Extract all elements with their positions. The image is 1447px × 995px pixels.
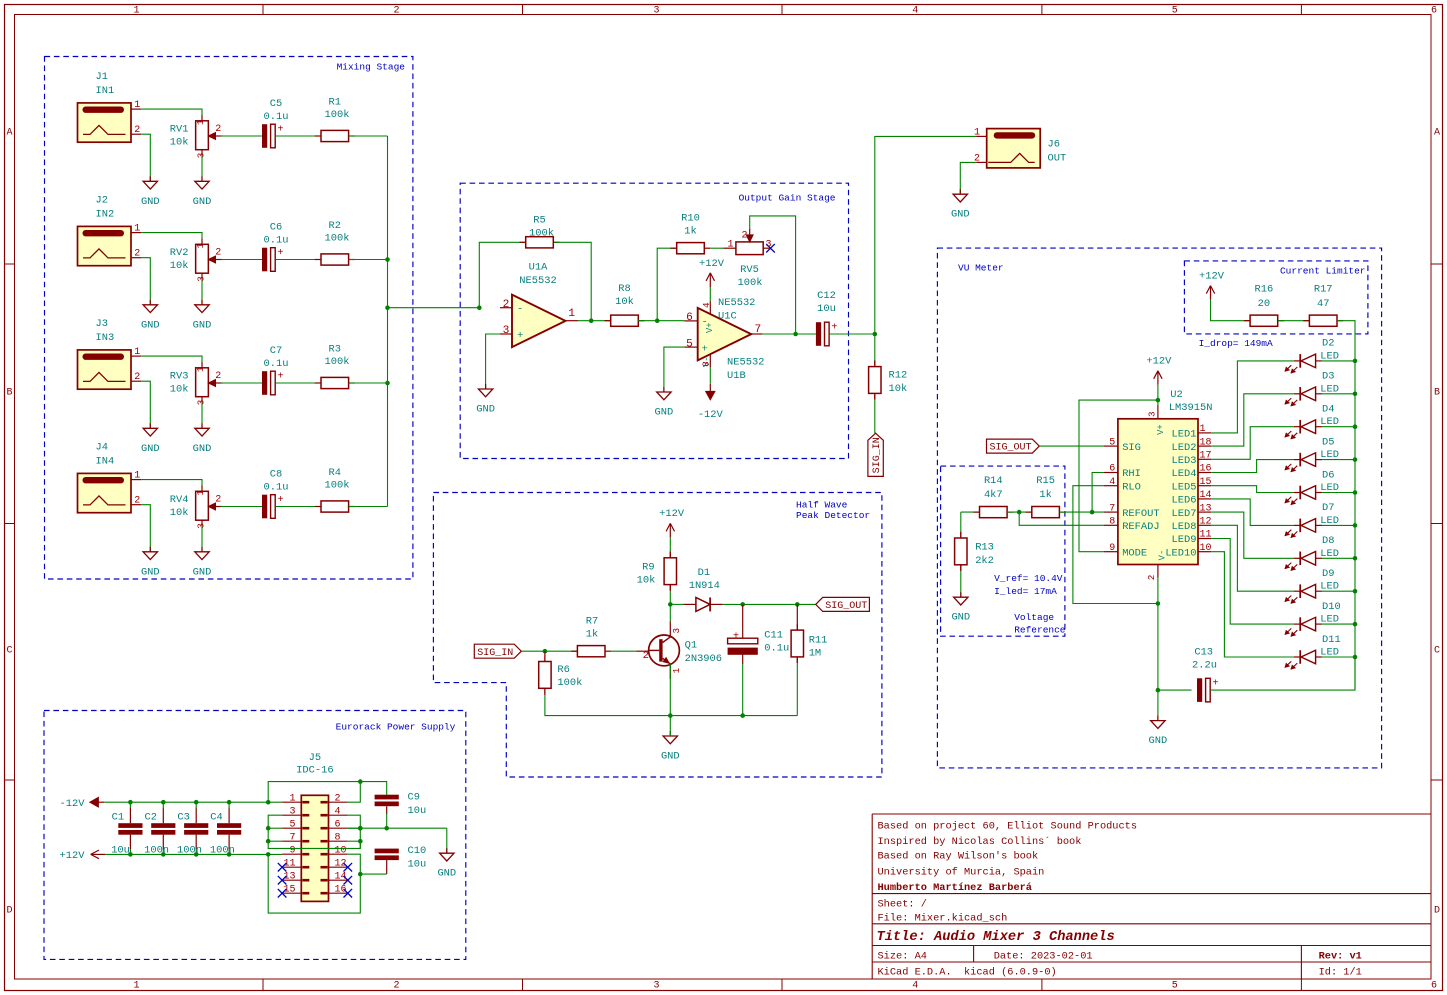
svg-text:NE5532: NE5532 xyxy=(519,275,556,287)
svg-text:C11: C11 xyxy=(764,630,783,642)
svg-text:2: 2 xyxy=(643,650,649,662)
svg-text:6: 6 xyxy=(686,312,693,324)
svg-text:LED8: LED8 xyxy=(1172,521,1197,533)
svg-text:4: 4 xyxy=(1109,477,1115,488)
svg-text:RV3: RV3 xyxy=(170,370,189,382)
svg-text:1: 1 xyxy=(195,119,206,125)
svg-text:7: 7 xyxy=(289,832,295,843)
svg-text:C6: C6 xyxy=(270,222,282,234)
svg-text:REFADJ: REFADJ xyxy=(1122,521,1159,533)
svg-text:B: B xyxy=(6,388,12,399)
svg-text:3: 3 xyxy=(195,153,206,159)
svg-text:R10: R10 xyxy=(681,213,700,225)
svg-text:Half Wave: Half Wave xyxy=(796,500,848,511)
svg-text:D1: D1 xyxy=(698,567,710,579)
svg-text:4: 4 xyxy=(701,302,712,308)
svg-text:13: 13 xyxy=(1200,503,1212,514)
svg-text:+: + xyxy=(278,371,284,382)
svg-text:3: 3 xyxy=(1147,411,1158,417)
svg-text:2: 2 xyxy=(503,299,510,311)
svg-text:LED: LED xyxy=(1320,548,1339,560)
svg-text:LED: LED xyxy=(1320,383,1339,395)
svg-text:LED: LED xyxy=(1320,581,1339,593)
svg-text:GND: GND xyxy=(193,319,212,331)
svg-text:University of Murcia, Spain: University of Murcia, Spain xyxy=(878,867,1045,879)
svg-text:100k: 100k xyxy=(738,277,763,289)
svg-text:D5: D5 xyxy=(1322,436,1334,448)
svg-text:2k2: 2k2 xyxy=(975,555,994,567)
svg-text:J5: J5 xyxy=(309,752,321,764)
svg-text:3: 3 xyxy=(653,6,659,17)
svg-text:+12V: +12V xyxy=(60,850,86,862)
svg-text:+: + xyxy=(278,124,284,135)
svg-text:15: 15 xyxy=(1200,477,1212,488)
svg-text:6: 6 xyxy=(1109,464,1115,475)
svg-text:GND: GND xyxy=(1149,735,1168,747)
svg-text:100n: 100n xyxy=(177,844,202,856)
svg-text:R15: R15 xyxy=(1036,475,1055,487)
svg-text:Date: 2023-02-01: Date: 2023-02-01 xyxy=(994,950,1093,962)
svg-text:LED3: LED3 xyxy=(1172,455,1197,467)
svg-text:3: 3 xyxy=(766,239,772,250)
svg-text:1: 1 xyxy=(727,239,733,250)
svg-text:1k: 1k xyxy=(684,226,696,238)
svg-text:20: 20 xyxy=(1258,298,1270,310)
svg-text:6: 6 xyxy=(335,819,341,830)
svg-text:1: 1 xyxy=(133,981,139,992)
svg-text:Peak Detector: Peak Detector xyxy=(796,510,870,521)
svg-text:C: C xyxy=(1434,646,1440,657)
svg-text:Size: A4: Size: A4 xyxy=(878,950,927,962)
svg-text:IDC-16: IDC-16 xyxy=(296,764,333,776)
svg-text:C5: C5 xyxy=(270,98,282,110)
svg-text:Id: 1/1: Id: 1/1 xyxy=(1319,967,1362,979)
svg-text:R14: R14 xyxy=(984,475,1003,487)
svg-text:17: 17 xyxy=(1200,451,1212,462)
svg-text:RHI: RHI xyxy=(1122,468,1141,480)
svg-text:+: + xyxy=(1213,678,1219,689)
svg-text:RV1: RV1 xyxy=(170,123,189,135)
svg-text:GND: GND xyxy=(141,319,160,331)
svg-text:Sheet: /: Sheet: / xyxy=(878,898,927,910)
svg-text:SIG_IN: SIG_IN xyxy=(477,648,513,659)
svg-text:7: 7 xyxy=(1109,503,1115,514)
svg-text:GND: GND xyxy=(661,751,680,763)
svg-text:14: 14 xyxy=(1200,490,1212,501)
svg-text:SIG_OUT: SIG_OUT xyxy=(825,601,867,612)
svg-text:RV5: RV5 xyxy=(740,264,759,276)
svg-text:R3: R3 xyxy=(329,344,341,356)
svg-text:D: D xyxy=(6,906,12,917)
svg-text:R16: R16 xyxy=(1255,284,1274,296)
svg-text:1: 1 xyxy=(1200,424,1206,435)
svg-text:GND: GND xyxy=(951,209,970,221)
svg-text:4: 4 xyxy=(912,981,918,992)
svg-text:C3: C3 xyxy=(177,811,189,823)
svg-text:3: 3 xyxy=(195,400,206,406)
svg-text:D6: D6 xyxy=(1322,469,1334,481)
svg-text:1: 1 xyxy=(134,347,140,358)
svg-text:LED: LED xyxy=(1320,449,1339,461)
svg-text:2: 2 xyxy=(215,495,221,506)
svg-text:2: 2 xyxy=(1146,575,1157,581)
svg-text:+12V: +12V xyxy=(659,508,685,520)
svg-text:0.1u: 0.1u xyxy=(264,234,289,246)
svg-text:RV2: RV2 xyxy=(170,247,189,259)
svg-text:GND: GND xyxy=(655,407,674,419)
svg-text:R4: R4 xyxy=(329,467,341,479)
svg-text:7: 7 xyxy=(755,324,762,336)
svg-text:16: 16 xyxy=(1200,464,1212,475)
svg-text:10k: 10k xyxy=(170,384,189,396)
svg-text:2N3906: 2N3906 xyxy=(685,653,722,665)
svg-text:1: 1 xyxy=(134,100,140,111)
svg-text:J2: J2 xyxy=(96,195,108,207)
svg-text:GND: GND xyxy=(141,566,160,578)
svg-text:10u: 10u xyxy=(408,858,427,870)
svg-text:18: 18 xyxy=(1200,437,1212,448)
svg-text:R2: R2 xyxy=(329,220,341,232)
svg-text:D4: D4 xyxy=(1322,404,1334,416)
svg-text:LED9: LED9 xyxy=(1172,534,1197,546)
svg-text:R17: R17 xyxy=(1314,284,1333,296)
svg-text:D2: D2 xyxy=(1322,338,1334,350)
svg-text:8: 8 xyxy=(701,361,712,367)
svg-text:V+: V+ xyxy=(1156,424,1166,435)
svg-text:Reference: Reference xyxy=(1014,625,1066,636)
svg-text:0.1u: 0.1u xyxy=(264,111,289,123)
svg-text:RV4: RV4 xyxy=(170,494,189,506)
svg-text:C2: C2 xyxy=(145,811,157,823)
svg-text:2: 2 xyxy=(393,6,399,17)
svg-text:+: + xyxy=(702,343,708,355)
svg-text:V_ref= 10.4V: V_ref= 10.4V xyxy=(994,573,1063,584)
svg-text:B: B xyxy=(1434,388,1440,399)
svg-text:5: 5 xyxy=(1172,6,1178,17)
svg-text:LED: LED xyxy=(1320,647,1339,659)
svg-text:10k: 10k xyxy=(615,296,634,308)
svg-text:D3: D3 xyxy=(1322,371,1334,383)
svg-text:D9: D9 xyxy=(1322,568,1334,580)
svg-text:-12V: -12V xyxy=(698,409,724,421)
svg-text:4: 4 xyxy=(912,6,918,17)
svg-text:100k: 100k xyxy=(557,677,582,689)
svg-text:R13: R13 xyxy=(975,542,994,554)
svg-text:-: - xyxy=(517,303,523,315)
svg-text:D10: D10 xyxy=(1322,601,1341,613)
svg-text:A: A xyxy=(1434,128,1440,139)
svg-text:3: 3 xyxy=(671,628,682,634)
svg-text:6: 6 xyxy=(1431,6,1437,17)
svg-text:LED: LED xyxy=(1320,350,1339,362)
svg-text:1: 1 xyxy=(195,490,206,496)
svg-text:J1: J1 xyxy=(96,71,108,83)
svg-text:5: 5 xyxy=(1109,437,1115,448)
svg-text:+12V: +12V xyxy=(1199,271,1225,283)
svg-text:NE5532: NE5532 xyxy=(727,357,764,369)
svg-text:1M: 1M xyxy=(809,648,821,660)
svg-text:GND: GND xyxy=(193,443,212,455)
svg-text:R9: R9 xyxy=(642,561,654,573)
svg-text:10k: 10k xyxy=(170,137,189,149)
svg-text:C10: C10 xyxy=(408,845,427,857)
svg-text:SIG: SIG xyxy=(1122,442,1141,454)
svg-text:J4: J4 xyxy=(96,442,108,454)
svg-text:5: 5 xyxy=(289,819,295,830)
svg-text:J3: J3 xyxy=(96,318,108,330)
svg-text:LED1: LED1 xyxy=(1172,429,1197,441)
svg-text:100k: 100k xyxy=(325,109,350,121)
svg-text:9: 9 xyxy=(289,845,295,856)
svg-text:10u: 10u xyxy=(817,303,836,315)
svg-text:R11: R11 xyxy=(809,634,828,646)
svg-text:+12V: +12V xyxy=(699,258,725,270)
svg-text:Eurorack Power Supply: Eurorack Power Supply xyxy=(336,722,456,733)
svg-text:OUT: OUT xyxy=(1048,152,1067,164)
svg-text:2: 2 xyxy=(134,125,140,136)
svg-text:MODE: MODE xyxy=(1122,547,1147,559)
svg-text:1: 1 xyxy=(568,308,575,320)
svg-text:0.1u: 0.1u xyxy=(764,643,789,655)
svg-text:1: 1 xyxy=(671,667,682,673)
svg-text:C12: C12 xyxy=(817,290,836,302)
svg-text:-12V: -12V xyxy=(60,798,86,810)
svg-text:Based on Ray Wilson's book: Based on Ray Wilson's book xyxy=(878,851,1039,863)
svg-text:10k: 10k xyxy=(637,574,656,586)
svg-text:100k: 100k xyxy=(529,227,554,239)
svg-text:2: 2 xyxy=(393,981,399,992)
svg-text:NE5532: NE5532 xyxy=(718,297,755,309)
svg-text:GND: GND xyxy=(951,612,970,624)
svg-text:C7: C7 xyxy=(270,345,282,357)
svg-text:I_drop= 149mA: I_drop= 149mA xyxy=(1199,338,1273,349)
svg-text:5: 5 xyxy=(686,338,693,350)
svg-text:100n: 100n xyxy=(144,844,169,856)
svg-text:12: 12 xyxy=(1200,517,1212,528)
svg-text:1: 1 xyxy=(195,243,206,249)
svg-text:Rev: v1: Rev: v1 xyxy=(1319,950,1362,962)
svg-text:3: 3 xyxy=(289,806,295,817)
svg-text:REFOUT: REFOUT xyxy=(1122,508,1159,520)
svg-text:C9: C9 xyxy=(408,792,420,804)
svg-text:3: 3 xyxy=(195,523,206,529)
svg-text:LED7: LED7 xyxy=(1172,508,1197,520)
svg-text:2: 2 xyxy=(741,231,747,242)
svg-text:C1: C1 xyxy=(112,811,124,823)
svg-text:10k: 10k xyxy=(889,383,908,395)
svg-text:A: A xyxy=(6,128,12,139)
svg-text:2: 2 xyxy=(134,496,140,507)
svg-text:LED: LED xyxy=(1320,515,1339,527)
svg-text:47: 47 xyxy=(1317,298,1329,310)
svg-text:4k7: 4k7 xyxy=(984,489,1003,501)
svg-text:100k: 100k xyxy=(325,233,350,245)
svg-text:1k: 1k xyxy=(586,629,598,641)
svg-text:GND: GND xyxy=(476,404,495,416)
svg-text:1: 1 xyxy=(289,793,295,804)
svg-text:GND: GND xyxy=(193,566,212,578)
svg-text:3: 3 xyxy=(503,325,510,337)
svg-text:4: 4 xyxy=(335,806,341,817)
svg-text:0.1u: 0.1u xyxy=(264,358,289,370)
svg-text:1: 1 xyxy=(133,6,139,17)
svg-text:R7: R7 xyxy=(586,616,598,628)
svg-text:2: 2 xyxy=(215,371,221,382)
svg-text:8: 8 xyxy=(335,832,341,843)
svg-text:Mixing Stage: Mixing Stage xyxy=(337,62,406,73)
svg-text:LED5: LED5 xyxy=(1172,481,1197,493)
svg-text:2: 2 xyxy=(335,793,341,804)
svg-text:1k: 1k xyxy=(1039,489,1051,501)
svg-text:1N914: 1N914 xyxy=(689,580,720,592)
svg-text:LED: LED xyxy=(1320,416,1339,428)
svg-text:10u: 10u xyxy=(408,805,427,817)
svg-text:I_led= 17mA: I_led= 17mA xyxy=(994,586,1057,597)
svg-text:Current Limiter: Current Limiter xyxy=(1280,265,1366,276)
svg-text:11: 11 xyxy=(1200,530,1212,541)
svg-text:File: Mixer.kicad_sch: File: Mixer.kicad_sch xyxy=(878,913,1008,925)
svg-text:LED6: LED6 xyxy=(1172,495,1197,507)
svg-text:LED4: LED4 xyxy=(1172,468,1197,480)
svg-text:3: 3 xyxy=(195,276,206,282)
svg-text:+: + xyxy=(831,322,837,333)
svg-text:R8: R8 xyxy=(618,283,630,295)
svg-text:GND: GND xyxy=(141,443,160,455)
svg-text:LED2: LED2 xyxy=(1172,442,1197,454)
svg-text:10k: 10k xyxy=(170,260,189,272)
svg-text:+: + xyxy=(278,495,284,506)
svg-text:C8: C8 xyxy=(270,469,282,481)
svg-text:RLO: RLO xyxy=(1122,481,1141,493)
svg-text:100k: 100k xyxy=(325,356,350,368)
svg-text:KiCad E.D.A. kicad (6.0.9-0): KiCad E.D.A. kicad (6.0.9-0) xyxy=(878,967,1057,979)
svg-text:1: 1 xyxy=(134,224,140,235)
svg-text:LED: LED xyxy=(1320,482,1339,494)
svg-text:GND: GND xyxy=(437,868,456,880)
svg-text:0.1u: 0.1u xyxy=(264,481,289,493)
svg-text:R5: R5 xyxy=(533,215,545,227)
svg-text:10: 10 xyxy=(1200,543,1212,554)
svg-text:SIG_IN: SIG_IN xyxy=(872,437,883,473)
svg-text:100k: 100k xyxy=(325,480,350,492)
svg-text:GND: GND xyxy=(193,196,212,208)
svg-text:R12: R12 xyxy=(889,370,908,382)
svg-text:U1C: U1C xyxy=(718,310,737,322)
svg-text:LED: LED xyxy=(1320,614,1339,626)
svg-text:1: 1 xyxy=(134,471,140,482)
svg-text:Q1: Q1 xyxy=(685,640,697,652)
svg-text:C: C xyxy=(6,646,12,657)
svg-text:9: 9 xyxy=(1109,543,1115,554)
svg-text:10: 10 xyxy=(335,845,347,856)
svg-text:D8: D8 xyxy=(1322,535,1334,547)
svg-text:C4: C4 xyxy=(210,811,222,823)
svg-text:Inspired by Nicolas Collins´ b: Inspired by Nicolas Collins´ book xyxy=(878,835,1082,848)
svg-text:+: + xyxy=(517,330,523,342)
svg-text:D11: D11 xyxy=(1322,634,1341,646)
svg-text:8: 8 xyxy=(1109,517,1115,528)
svg-text:5: 5 xyxy=(1172,981,1178,992)
svg-text:6: 6 xyxy=(1431,981,1437,992)
svg-text:100n: 100n xyxy=(210,844,235,856)
svg-text:Humberto Martínez Barberá: Humberto Martínez Barberá xyxy=(878,882,1032,894)
svg-text:VU Meter: VU Meter xyxy=(958,263,1004,274)
svg-text:D7: D7 xyxy=(1322,502,1334,514)
svg-text:2: 2 xyxy=(215,248,221,259)
svg-text:3: 3 xyxy=(653,981,659,992)
svg-text:R6: R6 xyxy=(557,664,569,676)
svg-text:2: 2 xyxy=(134,249,140,260)
svg-text:1: 1 xyxy=(195,366,206,372)
svg-text:C13: C13 xyxy=(1194,646,1213,658)
svg-text:+12V: +12V xyxy=(1146,356,1172,368)
svg-text:Title: Audio Mixer 3 Channels: Title: Audio Mixer 3 Channels xyxy=(877,930,1115,945)
svg-text:V+: V+ xyxy=(705,322,715,333)
svg-text:Output Gain Stage: Output Gain Stage xyxy=(739,193,836,204)
svg-text:Voltage: Voltage xyxy=(1014,612,1054,623)
svg-text:IN3: IN3 xyxy=(96,332,115,344)
svg-text:U2: U2 xyxy=(1170,389,1182,401)
svg-text:GND: GND xyxy=(141,196,160,208)
svg-text:IN2: IN2 xyxy=(96,209,115,221)
svg-text:10k: 10k xyxy=(170,507,189,519)
svg-text:1: 1 xyxy=(974,127,980,138)
svg-text:Based on project 60, Elliot So: Based on project 60, Elliot Sound Produc… xyxy=(878,821,1138,833)
svg-text:R1: R1 xyxy=(329,97,341,109)
svg-text:2: 2 xyxy=(134,372,140,383)
svg-text:LM3915N: LM3915N xyxy=(1169,402,1213,414)
svg-text:U1A: U1A xyxy=(529,262,548,274)
svg-text:D: D xyxy=(1434,906,1440,917)
svg-text:10u: 10u xyxy=(111,844,130,856)
svg-text:2.2u: 2.2u xyxy=(1192,659,1217,671)
svg-text:U1B: U1B xyxy=(727,370,746,382)
svg-text:LED10: LED10 xyxy=(1165,547,1196,559)
svg-text:J6: J6 xyxy=(1048,139,1060,151)
svg-text:SIG_OUT: SIG_OUT xyxy=(990,443,1032,454)
svg-text:IN4: IN4 xyxy=(96,456,115,468)
svg-text:+: + xyxy=(278,248,284,259)
svg-text:2: 2 xyxy=(215,124,221,135)
svg-text:IN1: IN1 xyxy=(96,85,115,97)
